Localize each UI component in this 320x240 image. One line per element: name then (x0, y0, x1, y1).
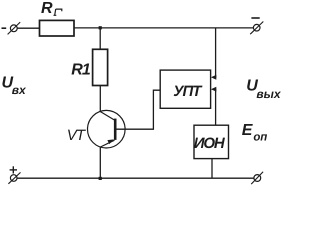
amplifier УПТ box (160, 70, 210, 108)
VT base bar (114, 119, 117, 140)
wire top rail to УПТ input (arrow) (213, 28, 216, 77)
plus sign at input bottom terminal (10, 169, 17, 171)
node junction top (dot) (99, 26, 102, 29)
node junction bottom (dot) (99, 177, 102, 180)
wire bottom rail (17, 177, 254, 179)
terminal bottom-left (10, 175, 17, 182)
resistor R1 (93, 49, 108, 85)
VT collector diagonal (100, 112, 114, 121)
resistor Rг (40, 20, 75, 36)
svg-text:R: R (41, 0, 53, 17)
wire top rail (74, 27, 254, 29)
wire R1 to VT collector (99, 86, 101, 112)
wire VT emitter down (99, 147, 101, 178)
svg-text:VT: VT (67, 127, 87, 144)
VT emitter arrow (pnp) (107, 137, 115, 144)
terminal bottom-right (254, 175, 261, 182)
minus sign at output top terminal (251, 17, 259, 19)
svg-text:оп: оп (253, 131, 267, 143)
transistor VT body (88, 110, 126, 148)
wire junction to R1 (99, 28, 101, 50)
terminal top-right (253, 24, 260, 31)
wire VT base to amplifier (117, 90, 161, 129)
VT emitter diagonal (100, 140, 114, 147)
svg-text:вых: вых (256, 87, 281, 101)
wire ИОН to bottom rail (211, 159, 213, 179)
svg-text:ИОН: ИОН (194, 135, 226, 152)
svg-text:УПТ: УПТ (173, 83, 203, 100)
svg-text:R1: R1 (71, 62, 91, 79)
svg-text:вх: вх (12, 83, 27, 97)
svg-text:E: E (242, 122, 254, 139)
terminal top-left (10, 25, 17, 32)
wire ИОН to УПТ input (arrow) (213, 89, 216, 125)
wire terminal to Rг (17, 27, 40, 29)
reference source ИОН box (194, 125, 229, 158)
minus sign at input top terminal (2, 27, 7, 29)
